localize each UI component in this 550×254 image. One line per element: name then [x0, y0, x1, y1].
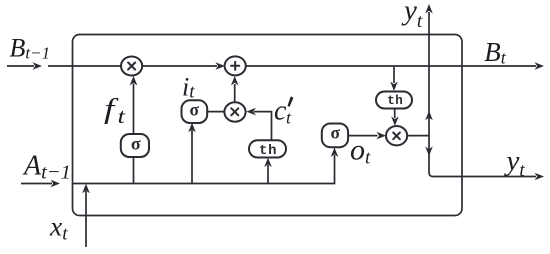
svg-text:th: th: [259, 143, 277, 159]
svg-text:th: th: [387, 94, 403, 108]
svg-text:σ: σ: [331, 123, 341, 143]
svg-text:σ: σ: [190, 100, 200, 120]
svg-text:σ: σ: [131, 134, 141, 154]
